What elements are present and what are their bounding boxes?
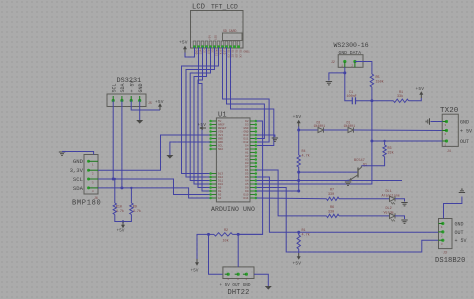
svg-text:+5V: +5V — [155, 99, 164, 105]
ground for DHT22 — [265, 286, 272, 290]
Arduino left pin D9 — [209, 186, 221, 189]
wire Arduino D8 stub to pullup net — [257, 190, 299, 192]
svg-text:4.7k: 4.7k — [116, 209, 124, 214]
DS18B20 pin OUT — [439, 230, 464, 238]
wire Arduino D5 OneWire to DS18B20 OUT — [257, 177, 439, 232]
svg-text:GND: GND — [73, 158, 84, 165]
Arduino right pin D9 — [245, 190, 257, 193]
wire DHT22 OUT up to R2 junction — [237, 234, 239, 267]
svg-text:330: 330 — [328, 193, 334, 197]
WS2300 pin GND — [341, 60, 346, 68]
svg-text:SDA: SDA — [218, 148, 223, 151]
Arduino left pin VIN — [209, 130, 223, 133]
junction data net / TX20 OUT — [370, 140, 373, 143]
svg-text:LCD: LCD — [192, 4, 205, 12]
wire R1 to +5V — [409, 98, 422, 101]
label J4 — [447, 149, 451, 153]
SD card sub-symbol on TFT_LCD — [223, 33, 243, 41]
svg-text:J5: J5 — [148, 101, 152, 105]
Arduino right pin D11 — [243, 137, 257, 140]
svg-text:A4: A4 — [218, 197, 222, 200]
Arduino right pin A0 — [245, 148, 257, 151]
svg-text:VCC: VCC — [199, 50, 202, 55]
junction I2C SCL / DS3231 — [112, 178, 115, 181]
svg-text:BC547: BC547 — [354, 159, 365, 163]
svg-text:R6: R6 — [330, 206, 334, 210]
ground for Q1 emitter — [345, 182, 351, 185]
module U2 TFT_LCD display — [191, 11, 244, 49]
LCD pin SCK — [217, 41, 222, 55]
svg-text:DL2: DL2 — [386, 207, 392, 211]
wire R10/R9 join — [115, 215, 132, 222]
transistor Q1 BC547 NPN — [349, 166, 362, 181]
svg-text:SD_CS: SD_CS — [227, 50, 230, 58]
svg-text:J2: J2 — [331, 60, 335, 64]
svg-text:+5V: +5V — [179, 40, 188, 46]
wire LCD pin1 to +5V — [185, 47, 195, 57]
resistor R9 4.7k (SDA pullup) — [130, 188, 132, 203]
wire +5V branch left and down — [197, 234, 209, 259]
junction WS2300 GND — [343, 71, 346, 74]
Arduino left pin SCL — [209, 144, 223, 147]
junction R2 right / DHT data — [237, 233, 240, 236]
svg-text:+5V: +5V — [198, 122, 207, 128]
wire DS3231 SCL down to I2C SCL net — [112, 101, 114, 180]
svg-text:+5V: +5V — [293, 114, 302, 120]
svg-text:SD_DO: SD_DO — [235, 50, 238, 58]
wire R4 down to data rows — [298, 167, 300, 191]
label + 5V OUT GND — [220, 283, 251, 288]
wire C1 to R1 — [356, 100, 394, 102]
svg-text:J6: J6 — [94, 196, 98, 200]
wire WS2300 GND down to C1 — [345, 67, 353, 101]
+5V supply — [195, 259, 199, 266]
Arduino left pin SDA — [209, 148, 223, 151]
ground for Arduino — [166, 155, 173, 159]
svg-text:SDA: SDA — [120, 83, 126, 92]
DS18B20 pin + 5V — [439, 238, 467, 246]
junction +5V/diode row — [297, 129, 300, 132]
wire R6 to DL2 — [339, 215, 390, 217]
wire +5V down through R4 — [298, 127, 300, 156]
wire LCD pin to Arduino D11 (staircase) — [190, 47, 210, 181]
svg-text:+5V: +5V — [293, 261, 302, 267]
LCD pin LED — [221, 41, 226, 55]
Arduino right pin D1 — [245, 169, 257, 172]
wire LCD SD pin to Arduino right pin (bundle 2) — [227, 47, 265, 139]
LCD pin SD_CK — [237, 41, 242, 58]
module DS3231 RTC header J5 — [107, 94, 146, 107]
LCD pin SD_DO — [233, 41, 238, 58]
svg-text:+ 5V: + 5V — [460, 129, 472, 135]
junction pullup join — [122, 220, 124, 222]
label inside LCD above pins — [209, 35, 212, 40]
svg-text:U1: U1 — [218, 112, 227, 120]
label GND1 near LCD pins — [244, 51, 251, 54]
junction data net / RC row — [370, 99, 373, 102]
svg-text:SCL: SCL — [111, 83, 117, 92]
Arduino left pin 5V — [209, 120, 221, 123]
svg-text:330: 330 — [328, 210, 334, 214]
label J5 — [148, 101, 152, 105]
DS3231 pin GND — [138, 83, 144, 102]
wire +5V rail to DHT22 pin1 — [209, 234, 223, 274]
svg-text:J3: J3 — [443, 251, 447, 255]
TX20 pin + 5V — [442, 129, 472, 137]
ground for TX20 — [426, 118, 429, 124]
junction I2C SDA / DS3231 — [120, 186, 123, 189]
svg-text:GND DATA: GND DATA — [339, 50, 362, 56]
Arduino right pin D8 — [245, 186, 257, 189]
wire Arduino A5 row to DS18B20 5V — [257, 188, 439, 253]
wire DS3231 GND to ground — [139, 101, 141, 121]
wire R3 to Q1 collector — [361, 157, 384, 166]
resistor R7 330 — [327, 197, 340, 200]
DHT22 pin — [225, 273, 230, 281]
Arduino left pin D8 — [209, 190, 221, 193]
wire WS2300 GND branch to ground — [329, 73, 345, 81]
diode D1 1N4001 — [324, 129, 349, 131]
LCD pin MOSI — [213, 41, 218, 56]
svg-text:R2: R2 — [224, 229, 228, 233]
svg-text:R7: R7 — [330, 189, 334, 193]
junction R4 net / D8 row — [297, 190, 300, 193]
resistor R5 150k — [370, 74, 373, 87]
module U1 ARDUINO UNO — [216, 118, 250, 202]
label J2 — [331, 60, 335, 64]
svg-text:+5V: +5V — [117, 230, 125, 234]
resistor R2 10k — [208, 233, 214, 235]
wire TX20 GND to ground — [431, 121, 443, 123]
label DS18B20 — [435, 257, 465, 265]
Arduino left pin AREF — [209, 123, 225, 126]
svg-text:SCL: SCL — [73, 176, 83, 183]
ground for WS2300 — [326, 82, 332, 85]
svg-text:BMP180: BMP180 — [72, 200, 101, 208]
svg-text:R4: R4 — [302, 150, 306, 154]
wire D1 cathode to TX20 5V — [354, 129, 443, 132]
Arduino left pin RESET — [209, 127, 226, 130]
svg-text:3,3V: 3,3V — [70, 167, 84, 174]
wire DHT22 GND to ground — [254, 274, 268, 286]
svg-text:+5V: +5V — [416, 86, 425, 92]
Arduino left pin D11 — [209, 179, 223, 182]
svg-text:+ 5V OUT GND: + 5V OUT GND — [220, 283, 251, 288]
LCD pin VCC — [197, 41, 202, 55]
label J6 — [94, 196, 98, 200]
wire DS18B20 GND to ground — [444, 197, 462, 219]
wire TX20 OUT to data net — [372, 140, 442, 142]
Arduino right pin D10 — [243, 193, 257, 196]
label DS3231 — [117, 77, 142, 85]
wire LCD SD pin to Arduino right pin (bundle 3) — [231, 47, 274, 146]
svg-text:R10: R10 — [116, 206, 122, 210]
wire LCD pin to Arduino D12 (staircase) — [186, 47, 215, 177]
wire R2 to DHT data junction — [233, 233, 263, 235]
label WS2300-16 — [334, 42, 369, 49]
module WS2300-16 header J2 — [338, 55, 363, 68]
Arduino right pin D0 — [245, 162, 257, 165]
DS3231 pin SDA — [120, 83, 126, 102]
label BMP180 — [72, 200, 101, 208]
wire Arduino GND right to ground — [257, 135, 275, 137]
wire DS3231 +5V pin to supply — [131, 101, 160, 111]
module DS18B20 header J3 — [439, 219, 453, 249]
TX20 pin OUT — [442, 139, 469, 147]
svg-text:WS2300-16: WS2300-16 — [334, 42, 369, 49]
ground for BMP180 — [59, 152, 65, 155]
Arduino right pin A1 — [245, 151, 257, 154]
svg-text:+ 5V: + 5V — [455, 238, 467, 244]
svg-text:SCK: SCK — [219, 50, 222, 55]
svg-text:MOSI: MOSI — [215, 50, 218, 57]
diode D2 1N4001 — [299, 129, 318, 131]
BMP180 pin SCL — [73, 176, 98, 184]
svg-text:100nF: 100nF — [347, 95, 357, 99]
svg-text:R3: R3 — [388, 147, 392, 151]
+5V supply — [297, 120, 301, 127]
svg-text:DC: DC — [211, 50, 214, 54]
WS2300 pin DATA — [351, 60, 356, 68]
wire DL1 to ground — [395, 199, 405, 202]
svg-text:SD_DI: SD_DI — [231, 50, 234, 58]
svg-text:GND1: GND1 — [244, 51, 251, 54]
label TX20 — [440, 107, 459, 115]
+5V supply — [419, 91, 423, 98]
resistor R3 33k — [384, 141, 386, 145]
LCD pin SD_CS — [225, 41, 230, 58]
+5V supply — [121, 222, 125, 229]
LED DL1 Arancione — [390, 196, 396, 204]
DS3231 pin + 5V — [129, 80, 135, 102]
label ARDUINO UNO — [211, 206, 255, 213]
svg-text:+5V: +5V — [191, 270, 199, 274]
svg-text:ARDUINO UNO: ARDUINO UNO — [211, 206, 255, 213]
svg-text:DS18B20: DS18B20 — [435, 257, 465, 265]
Arduino right pin GND — [243, 127, 257, 130]
Arduino right pin D6 — [245, 176, 257, 179]
svg-text:SD CARD: SD CARD — [223, 29, 236, 33]
BMP180 pin 3,3V — [70, 167, 98, 175]
svg-text:150k: 150k — [376, 80, 384, 85]
svg-text:GND: GND — [138, 83, 144, 92]
svg-text:OUT: OUT — [460, 139, 469, 145]
svg-text:R1: R1 — [302, 229, 306, 233]
wire LCD SD pin to Arduino right pin (bundle 1) — [223, 47, 270, 142]
wire LCD pin to Arduino D9 (staircase) — [198, 47, 210, 188]
wire Arduino D6 row to wind sensor net — [257, 180, 403, 182]
wire base drive to Q1 — [299, 171, 358, 173]
module DHT22 header J1 — [223, 267, 254, 279]
svg-text:+5V: +5V — [209, 35, 212, 40]
svg-text:4.7k: 4.7k — [302, 154, 310, 159]
Arduino right pin A2 — [245, 155, 257, 158]
svg-text:RST: RST — [207, 50, 210, 55]
svg-text:1N4001: 1N4001 — [344, 124, 356, 128]
junction base drive — [297, 171, 300, 174]
junction R2 left — [207, 233, 210, 236]
svg-text:GND: GND — [455, 222, 464, 228]
svg-text:+ 5V: + 5V — [129, 80, 135, 92]
wire DL2 to ground — [395, 216, 405, 219]
label GND DATA — [339, 50, 362, 56]
LCD pin CS — [201, 41, 206, 53]
Arduino left pin D10 — [209, 183, 223, 186]
wire I2C SDA: BMP180/DS3231 to Arduino — [98, 188, 210, 198]
resistor R10 4.7k (SCL pullup) — [114, 179, 116, 203]
LCD pin RST — [205, 41, 210, 55]
module BMP180 sensor header — [84, 155, 98, 195]
label J3 — [443, 251, 447, 255]
LCD pin SD_DI — [229, 41, 234, 58]
Arduino right pin A3 — [245, 158, 257, 161]
BMP180 pin SDA — [73, 185, 98, 193]
label SD CARD — [223, 29, 236, 33]
svg-text:GND: GND — [195, 50, 198, 55]
label DHT22 — [228, 289, 250, 297]
wire LCD pin to Arduino D13 (staircase) — [182, 47, 219, 174]
ground for DL1 — [401, 203, 407, 206]
wire DS3231 SDA down to I2C SDA net — [121, 101, 123, 188]
+5V supply — [183, 46, 187, 53]
resistor R1 33k — [393, 99, 408, 102]
svg-text:OUT: OUT — [455, 230, 464, 236]
BMP180 pin GND — [73, 158, 98, 166]
junction OneWire / pullup — [297, 231, 300, 234]
Arduino left pin GND — [209, 137, 223, 140]
wire LCD pin to Arduino D8 (staircase) — [199, 47, 210, 191]
resistor R4 4.7k — [297, 155, 300, 167]
svg-text:LED: LED — [215, 35, 218, 40]
svg-text:LED: LED — [223, 50, 226, 55]
DHT22 pin — [243, 273, 248, 281]
TX20 pin GND — [442, 120, 469, 128]
+5V supply — [297, 253, 301, 260]
DS18B20 pin GND — [439, 222, 464, 230]
wire LCD pin to Arduino D10 (staircase) — [194, 47, 210, 184]
label LCD — [192, 4, 205, 12]
ground for DS3231 — [136, 120, 143, 124]
+5V supply — [199, 126, 206, 130]
Arduino right pin D14 — [243, 197, 257, 200]
svg-text:J4: J4 — [447, 149, 451, 153]
wire I2C SCL: BMP180/DS3231 to Arduino — [98, 179, 210, 195]
Arduino left pin GND — [209, 141, 223, 144]
wire Arduino D2 to DHT22 data — [238, 121, 262, 234]
Arduino right pin D13 — [243, 134, 257, 137]
label U1 — [218, 112, 227, 120]
DHT22 pin — [235, 273, 240, 281]
wire R7 to DL1 — [339, 198, 390, 200]
wire BMP180 GND to ground — [64, 152, 94, 155]
Arduino right pin GND — [243, 130, 257, 133]
Arduino left pin 3V3 — [209, 134, 223, 137]
junction R4 net / D6 row — [297, 179, 300, 182]
svg-text:4.7k: 4.7k — [133, 209, 141, 214]
ground for DL2 — [401, 220, 407, 223]
svg-text:CS: CS — [203, 50, 206, 54]
LCD pin DC — [209, 41, 214, 53]
svg-text:Arancione: Arancione — [382, 193, 400, 198]
Arduino right pin D12 — [243, 141, 257, 144]
Arduino right pin D5 — [245, 172, 257, 175]
Arduino left pin D12 — [209, 176, 223, 179]
wire Arduino D7 to R6 — [257, 170, 327, 216]
Arduino right pin A5 — [245, 183, 257, 186]
svg-text:GND: GND — [460, 120, 469, 126]
svg-text:D14: D14 — [243, 197, 248, 200]
svg-text:33k: 33k — [388, 151, 394, 156]
svg-text:33k: 33k — [397, 94, 403, 99]
svg-text:SD_CK: SD_CK — [239, 50, 242, 58]
Arduino right pin A4 — [245, 179, 257, 182]
wire Arduino GND to ground — [170, 142, 210, 155]
Arduino right pin D3 — [245, 123, 257, 126]
Arduino left pin A4 — [209, 197, 221, 200]
svg-text:R5: R5 — [376, 76, 380, 80]
wire Arduino D9 to R7 — [257, 197, 327, 200]
+5V supply — [158, 103, 162, 110]
ground for Arduino right GND — [272, 138, 278, 141]
Arduino right pin D7 — [245, 165, 257, 168]
LED DL2 Verde — [390, 213, 396, 221]
LCD pin GND — [193, 41, 198, 55]
module TX20 header J4 — [442, 114, 458, 146]
svg-text:TFT_LCD: TFT_LCD — [211, 4, 238, 11]
wire BMP180 3.3V to Arduino 3V3 — [98, 135, 210, 170]
Arduino left pin A5 — [209, 193, 221, 196]
svg-text:1N4001: 1N4001 — [314, 124, 326, 128]
DS3231 pin SCL — [111, 83, 117, 102]
wire Arduino A4 row to WS2300 data net — [257, 101, 372, 184]
svg-text:DHT22: DHT22 — [228, 289, 250, 297]
svg-text:TX20: TX20 — [440, 107, 459, 115]
wire R5 to data net — [371, 87, 373, 101]
svg-text:Verde: Verde — [384, 210, 394, 215]
label TFT_LCD — [211, 4, 238, 11]
svg-text:10k: 10k — [223, 239, 229, 244]
Arduino right pin D2 — [245, 120, 257, 123]
svg-text:R9: R9 — [133, 206, 137, 210]
capacitor C1 100nF — [352, 97, 355, 104]
svg-text:SDA: SDA — [73, 185, 84, 192]
resistor R6 330 — [327, 214, 340, 217]
ground for DS18B20 — [459, 189, 465, 192]
wire Q1 emitter to ground — [348, 179, 350, 182]
svg-text:4.7k: 4.7k — [302, 233, 310, 238]
wire WS2300 DATA to R5 — [355, 62, 372, 75]
Arduino left pin D13 — [209, 172, 223, 175]
Arduino right pin D4 — [245, 144, 257, 147]
